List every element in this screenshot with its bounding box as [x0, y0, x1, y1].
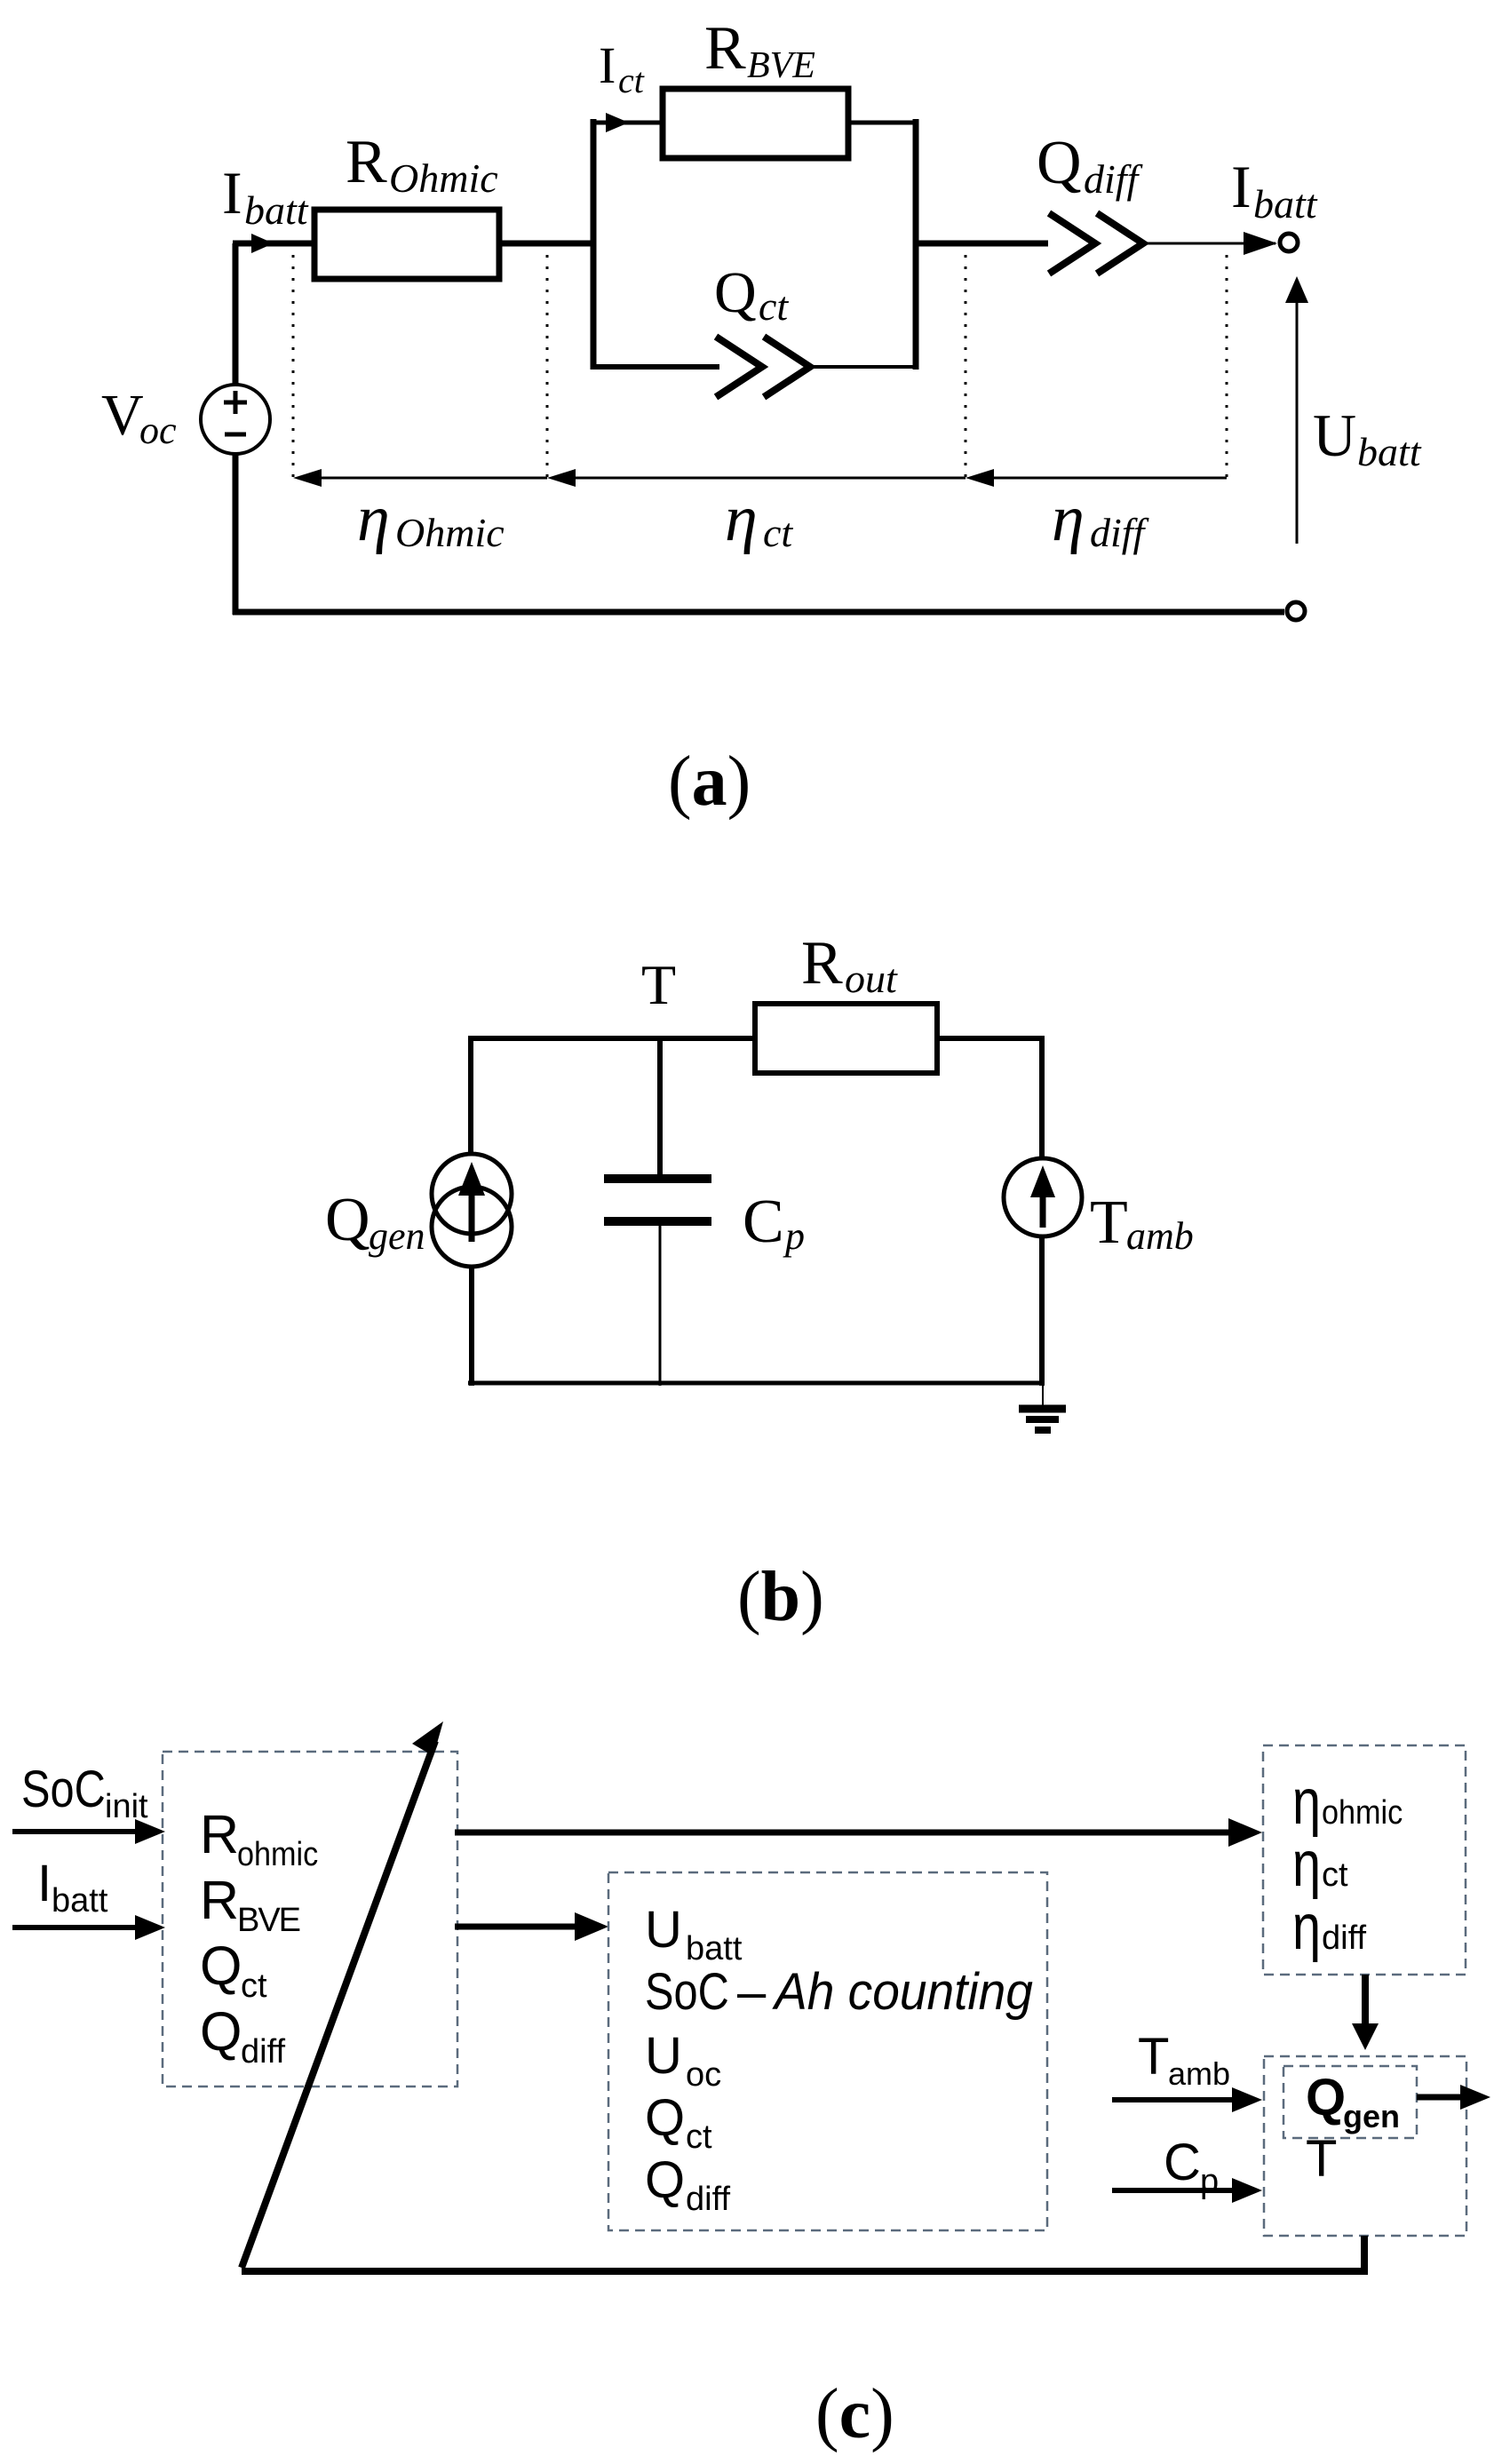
svg-text:R: R [346, 128, 387, 196]
wire: RC block to Qdiff [916, 241, 1048, 247]
svg-text:I: I [37, 1855, 52, 1912]
svg-text:R: R [200, 1870, 239, 1930]
resistor Rout [755, 1004, 937, 1073]
node etaOhmic span arrow [293, 469, 547, 487]
svg-text:η: η [1292, 1766, 1321, 1838]
current source Qgen label [325, 1186, 425, 1258]
capacitor Cp label [743, 1188, 805, 1258]
svg-text:Q: Q [645, 2151, 685, 2209]
svg-text:T: T [1090, 1188, 1128, 1257]
block outputs text Ubatt [645, 1901, 743, 1967]
svg-text:batt: batt [52, 1882, 108, 1920]
wire: Qgen down to bottom rail [469, 1268, 474, 1386]
svg-text:R: R [200, 1804, 239, 1864]
svg-text:T: T [1138, 2028, 1169, 2086]
wire: arrow to Ubatt block [455, 1912, 608, 1941]
svg-text:ct: ct [763, 510, 793, 555]
capacitor Qct chevrons [716, 337, 810, 397]
wire: thermal top rail [468, 1036, 1045, 1041]
block parameters text RBVE [200, 1870, 301, 1939]
svg-text:T: T [1306, 2130, 1337, 2188]
wire: output with arrow to terminal [1143, 232, 1277, 255]
wire: diagonal lookup arrow [242, 1721, 443, 2268]
node T label [641, 953, 676, 1016]
svg-text:diff: diff [1322, 1920, 1366, 1957]
svg-text:diff: diff [1090, 510, 1150, 555]
block: Qgen inner dashed box [1283, 2066, 1417, 2138]
block parameters text Qdiff [200, 2001, 285, 2071]
svg-text:diff: diff [1084, 156, 1144, 202]
svg-text:BVE: BVE [237, 1902, 301, 1939]
wire: thermal bottom rail [468, 1381, 1045, 1386]
node etaOhmic label [357, 482, 505, 555]
svg-text:I: I [222, 159, 242, 227]
node etadiff span arrow [966, 469, 1227, 487]
svg-text:(c): (c) [815, 2375, 894, 2453]
resistor RBVE [663, 89, 848, 158]
capacitor Qdiff chevrons [1049, 213, 1143, 274]
resistor ROhmic value label [346, 128, 498, 201]
wire: RC block left vertical [591, 119, 597, 370]
svg-text:Ohmic: Ohmic [389, 155, 498, 201]
block outputs text Qct [645, 2089, 712, 2156]
node Ibatt label (right) [1231, 153, 1318, 227]
node Ubatt label [1313, 401, 1422, 474]
capacitor Qdiff label [1037, 129, 1144, 202]
wire: temperature feedback path [242, 2236, 1364, 2271]
current source Qgen (double circle) [432, 1154, 512, 1267]
svg-text:(a): (a) [668, 743, 751, 821]
block eta text ohmic [1292, 1766, 1403, 1838]
svg-text:batt: batt [1253, 181, 1318, 227]
node Tamb input label [1138, 2028, 1230, 2092]
wire: Ibatt input arrow [12, 1915, 165, 1940]
svg-text:–: – [737, 1963, 767, 2021]
wire: SoCinit input arrow [12, 1819, 165, 1844]
svg-text:U: U [645, 1901, 682, 1959]
node Cp input label [1164, 2134, 1219, 2200]
block outputs text SoC Ah counting [645, 1963, 1033, 2021]
resistor ROhmic [314, 210, 499, 279]
resistor RBVE value label [704, 14, 815, 86]
svg-text:ct: ct [1322, 1856, 1348, 1894]
wire: RBVE to right vertical [848, 121, 918, 125]
svg-text:Q: Q [200, 2001, 242, 2062]
svg-text:R: R [801, 929, 843, 998]
svg-text:Q: Q [645, 2089, 685, 2147]
svg-text:Ah counting: Ah counting [772, 1963, 1033, 2021]
svg-text:ohmic: ohmic [1322, 1792, 1403, 1831]
svg-text:η: η [1292, 1828, 1321, 1900]
caption (a) [668, 743, 751, 821]
block outputs text Uoc [645, 2027, 721, 2094]
node SoCinit label [21, 1761, 148, 1825]
svg-text:oc: oc [686, 2056, 721, 2094]
svg-text:oc: oc [139, 409, 177, 452]
svg-text:Ohmic: Ohmic [395, 510, 505, 555]
capacitor Qct label [714, 260, 789, 329]
wire: resistor to RC block [499, 241, 596, 247]
block Qgen text [1306, 2069, 1400, 2134]
wire: main input with current arrow [233, 234, 312, 253]
svg-text:init: init [105, 1788, 148, 1825]
svg-text:U: U [1313, 401, 1356, 469]
svg-text:batt: batt [686, 1930, 743, 1967]
svg-text:p: p [783, 1214, 805, 1258]
node Ict label [599, 36, 645, 100]
svg-text:Q: Q [1306, 2069, 1346, 2126]
current source Qgen arrowhead [458, 1162, 485, 1196]
resistor Rout value label [801, 929, 898, 1001]
wire: Voc down to bottom rail [233, 454, 239, 615]
block: parameters dashed box [163, 1752, 457, 2086]
node etadiff label [1052, 482, 1150, 555]
svg-text:Q: Q [200, 1935, 242, 1996]
svg-text:ct: ct [618, 60, 645, 100]
svg-text:batt: batt [1357, 429, 1422, 474]
node etact label [725, 482, 793, 555]
svg-text:diff: diff [686, 2181, 730, 2218]
svg-text:I: I [599, 36, 616, 94]
block: eta dashed box [1263, 1745, 1466, 1975]
wire: long arrow to eta block [455, 1818, 1262, 1847]
node etact span arrow [547, 469, 966, 487]
svg-text:batt: batt [244, 187, 309, 233]
block eta text diff [1292, 1891, 1366, 1963]
node Ibatt input label [37, 1855, 108, 1920]
wire: Tamb down to bottom rail [1039, 1236, 1045, 1386]
block T text [1306, 2130, 1337, 2188]
svg-text:diff: diff [241, 2033, 285, 2071]
wire: RC top branch with Ict arrow [591, 113, 663, 132]
caption (b) [737, 1558, 824, 1636]
current source Tamb [1004, 1158, 1082, 1236]
wire: right vertical down to Tamb [1039, 1036, 1045, 1161]
capacitor Cp plates [604, 1179, 711, 1221]
wire: dotted guide 4 [1226, 255, 1228, 484]
wire: eta to Qgen down arrow [1352, 1975, 1379, 2050]
node Ubatt measurement arrow [1285, 276, 1308, 544]
caption (c) [815, 2375, 894, 2453]
wire: T node down to capacitor [657, 1038, 663, 1174]
wire: Qgen output arrow [1417, 2085, 1490, 2110]
current source Tamb label [1090, 1188, 1194, 1258]
wire: Cp input arrow [1112, 2178, 1262, 2203]
node bottom terminal [1287, 602, 1305, 620]
svg-text:ct: ct [686, 2118, 712, 2156]
svg-text:η: η [1292, 1891, 1321, 1963]
wire: left vertical from Voc up to main node [233, 243, 239, 385]
svg-text:R: R [704, 14, 746, 83]
svg-text:p: p [1200, 2163, 1219, 2200]
svg-text:Q: Q [1037, 129, 1082, 197]
svg-text:SoC: SoC [645, 1964, 729, 2021]
svg-text:C: C [1164, 2134, 1201, 2191]
wire: left vertical down to Qgen [468, 1036, 473, 1155]
svg-text:η: η [357, 482, 390, 555]
svg-text:Q: Q [714, 260, 757, 325]
ground [1019, 1383, 1066, 1430]
svg-text:SoC: SoC [21, 1761, 106, 1818]
wire: dotted guide 2 [546, 255, 549, 484]
svg-text:η: η [1052, 482, 1085, 555]
node Ibatt label (left) [222, 159, 309, 233]
svg-text:ct: ct [759, 283, 789, 329]
svg-text:U: U [645, 2027, 682, 2085]
wire: RC bottom branch [591, 364, 918, 370]
svg-text:ohmic: ohmic [237, 1834, 318, 1872]
svg-text:Q: Q [325, 1186, 370, 1254]
svg-text:T: T [641, 953, 676, 1016]
svg-text:C: C [743, 1188, 784, 1256]
wire: bottom return rail [233, 609, 1284, 616]
wire: dotted guide 3 [965, 255, 967, 484]
voltage source Voc [201, 385, 270, 454]
svg-text:(b): (b) [737, 1558, 824, 1636]
block: thermal dashed box [1264, 2056, 1466, 2236]
voltage source Voc label [101, 383, 177, 452]
svg-text:η: η [725, 482, 758, 555]
svg-text:amb: amb [1168, 2055, 1230, 2092]
svg-text:gen: gen [369, 1214, 425, 1258]
wire: dotted guide 1 [292, 255, 295, 484]
block outputs text Qdiff [645, 2151, 730, 2218]
wire: capacitor down to bottom rail [659, 1226, 662, 1386]
svg-text:I: I [1231, 153, 1252, 220]
block parameters text Qct [200, 1935, 267, 2005]
svg-text:out: out [845, 956, 898, 1001]
svg-text:BVE: BVE [747, 45, 815, 86]
svg-text:ct: ct [241, 1967, 267, 2005]
block: Ubatt outputs dashed box [608, 1872, 1047, 2230]
wire: Tamb input arrow [1112, 2087, 1262, 2112]
node output terminal [1280, 234, 1298, 251]
svg-text:V: V [101, 383, 144, 448]
svg-text:amb: amb [1126, 1214, 1194, 1258]
svg-text:gen: gen [1343, 2098, 1400, 2134]
wire: RC block right vertical [913, 119, 919, 370]
block parameters text Rohmic [200, 1804, 318, 1872]
block eta text ct [1292, 1828, 1348, 1900]
